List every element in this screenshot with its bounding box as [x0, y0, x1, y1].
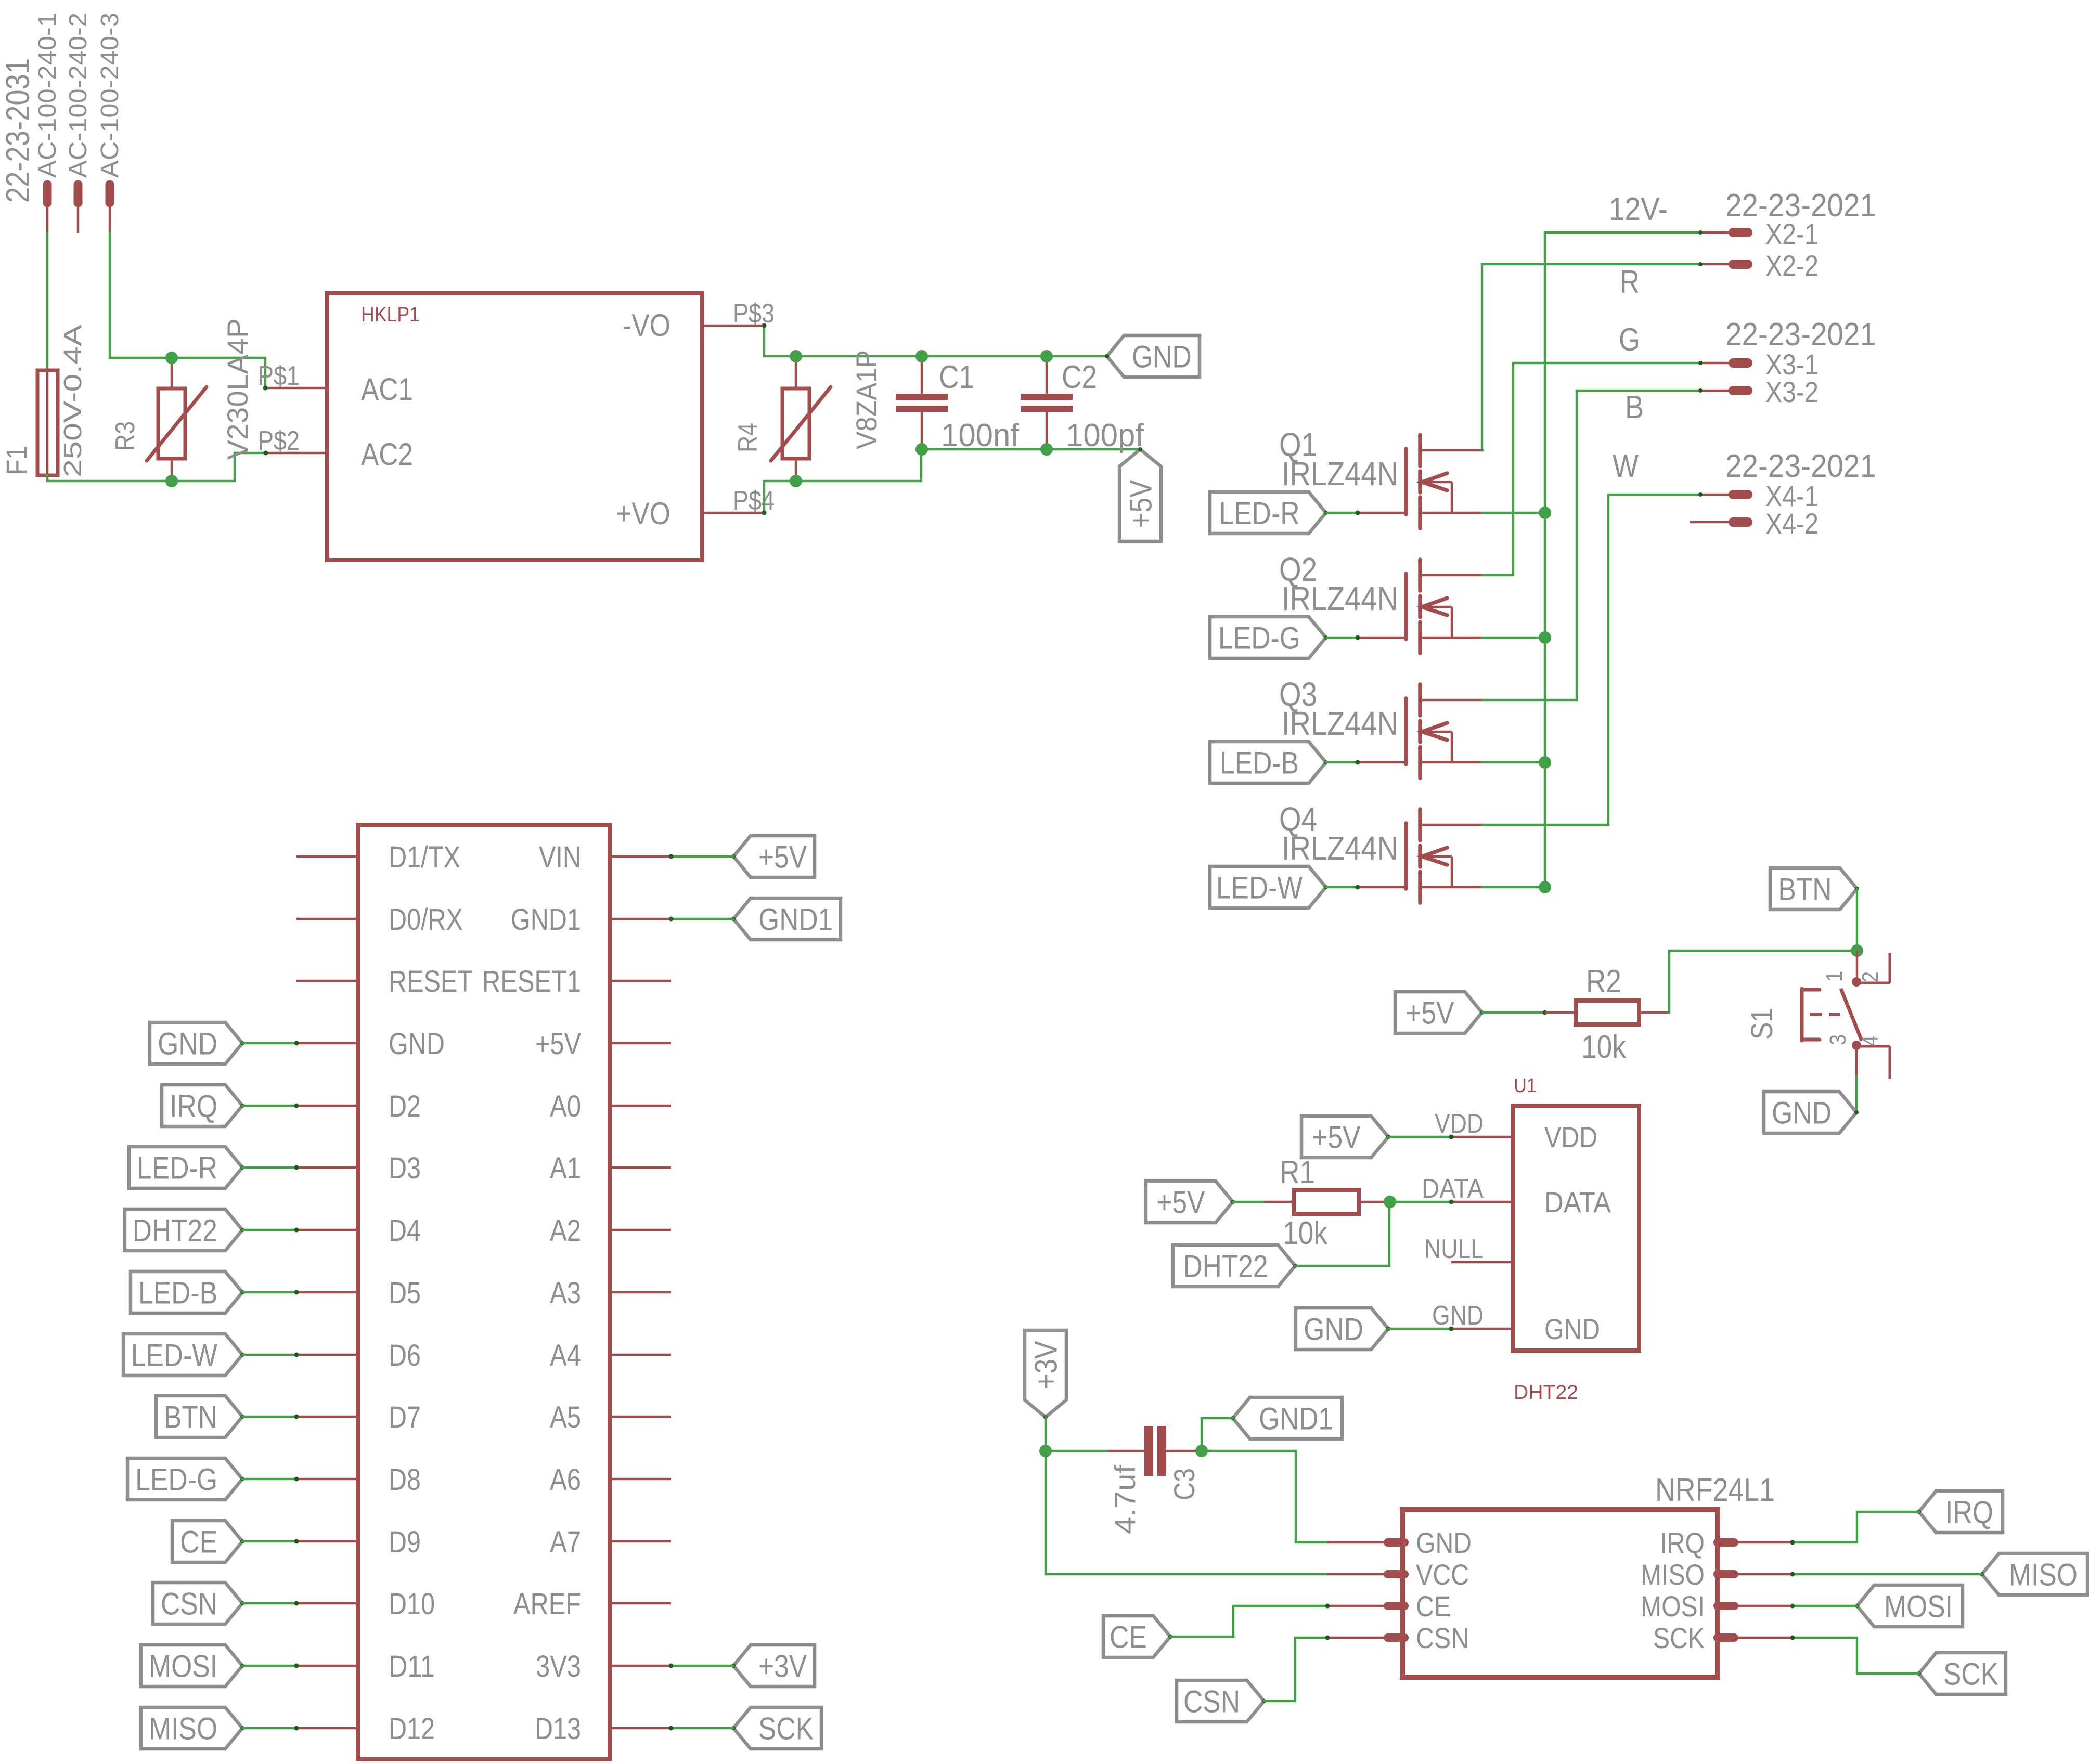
svg-text:3V3: 3V3 — [536, 1650, 581, 1683]
svg-text:AC-100-240-1: AC-100-240-1 — [34, 12, 61, 178]
net flag IRQ at D2 — [162, 1085, 242, 1126]
net flag GND at GND — [150, 1022, 242, 1064]
wire X1-1 to F1 — [46, 233, 49, 370]
svg-text:DATA: DATA — [1544, 1186, 1611, 1218]
S1 pin 2 bracket — [1889, 953, 1891, 983]
wire +5V to R2 — [1482, 1011, 1545, 1014]
svg-text:P$2: P$2 — [258, 426, 300, 456]
svg-text:GND: GND — [1432, 1301, 1484, 1331]
module NRF24L1 box — [1402, 1510, 1718, 1677]
wire Q3 source to bus — [1482, 761, 1545, 764]
svg-text:250V-0.4A: 250V-0.4A — [59, 325, 87, 477]
supply flag +5V at R1 — [1146, 1181, 1233, 1223]
pin NRF VCC — [1327, 1573, 1386, 1576]
pin A5 — [610, 1416, 671, 1418]
wire MOSI — [1793, 1605, 1857, 1607]
pin D0/RX — [296, 918, 358, 920]
node R4 bottom — [790, 475, 802, 487]
svg-text:BTN: BTN — [164, 1399, 217, 1434]
svg-text:R: R — [1620, 264, 1640, 300]
pin NRF IRQ — [1736, 1541, 1793, 1544]
pin P$2 AC2 — [266, 452, 327, 455]
connector pin X2-1 — [1700, 231, 1729, 234]
net flag GND below S1 — [1764, 1092, 1856, 1133]
net flag CE at D9 — [172, 1521, 242, 1562]
node C1 bottom — [915, 443, 928, 456]
svg-text:IRLZ44N: IRLZ44N — [1282, 705, 1398, 742]
svg-text:IRLZ44N: IRLZ44N — [1282, 455, 1398, 492]
svg-text:A3: A3 — [550, 1276, 581, 1310]
svg-text:+5V: +5V — [1157, 1185, 1205, 1220]
svg-text:LED-W: LED-W — [131, 1338, 217, 1372]
svg-text:LED-B: LED-B — [1220, 745, 1299, 780]
pin D12 — [296, 1727, 358, 1730]
pin +5V — [610, 1042, 671, 1045]
svg-text:R2: R2 — [1586, 964, 1621, 1000]
svg-text:LED-G: LED-G — [1218, 620, 1300, 655]
supply flag +5V — [1119, 449, 1161, 541]
connector X1 pin AC-100-240-2 — [74, 185, 83, 203]
svg-text:MISO: MISO — [2009, 1557, 2078, 1592]
pin 3V3 — [610, 1665, 671, 1667]
net flag LED gate Q4 — [1210, 866, 1326, 908]
svg-text:1: 1 — [1822, 971, 1847, 982]
wire net 12V- to X2-1 — [1545, 231, 1700, 234]
wire R1 to DATA — [1390, 1201, 1451, 1203]
svg-text:IRQ: IRQ — [1660, 1526, 1705, 1559]
svg-text:GND1: GND1 — [511, 903, 581, 937]
net flag SCK — [1919, 1653, 2006, 1694]
wire C3 to NRF GND — [1202, 1451, 1327, 1542]
wire SCK — [1793, 1638, 1919, 1674]
svg-text:CE: CE — [180, 1524, 217, 1559]
svg-text:D5: D5 — [389, 1276, 421, 1310]
node R3 top — [165, 352, 178, 364]
pin P$1 AC1 — [265, 387, 327, 390]
net flag LED gate Q3 — [1210, 742, 1326, 783]
pin D10 — [296, 1602, 358, 1605]
net flag MISO at D12 — [141, 1707, 242, 1749]
svg-text:+5V: +5V — [1123, 480, 1158, 528]
pin A6 — [610, 1478, 671, 1481]
net flag GND1 at C3 — [1233, 1397, 1342, 1439]
net flag MISO — [1982, 1553, 2087, 1595]
wire Q4 source to bus — [1482, 886, 1545, 889]
S1 pin 4 bracket — [1889, 1046, 1891, 1079]
svg-text:VDD: VDD — [1544, 1121, 1597, 1153]
supply flag GND — [1107, 335, 1200, 377]
svg-text:GND1: GND1 — [758, 902, 833, 937]
switch S1 — [1856, 951, 1859, 981]
pin D13 — [610, 1727, 671, 1730]
wire Q2 source to bus — [1482, 637, 1545, 639]
svg-text:X3-2: X3-2 — [1765, 375, 1819, 408]
net flag GND at U1 — [1296, 1308, 1388, 1350]
transistor Q1 IRLZ44N — [1404, 449, 1408, 514]
wire +3V to NRF VCC — [1046, 1451, 1327, 1574]
wire 12V- bus — [1544, 232, 1546, 887]
wire BTN down — [1856, 889, 1859, 951]
capacitor C2 — [1046, 356, 1048, 394]
svg-text:U1: U1 — [1514, 1075, 1537, 1097]
pin D1/TX — [296, 855, 358, 858]
fuse F1 — [37, 370, 58, 475]
svg-text:B: B — [1625, 390, 1644, 425]
wire -VO to GND rail — [764, 326, 1107, 356]
wire Q1 source to bus — [1482, 512, 1545, 514]
power module HKLP1 — [327, 293, 702, 560]
pin P$4 +VO — [702, 512, 764, 514]
svg-text:CSN: CSN — [1416, 1622, 1469, 1654]
svg-text:D0/RX: D0/RX — [389, 903, 463, 937]
node C3 right — [1195, 1445, 1208, 1457]
svg-text:NRF24L1: NRF24L1 — [1655, 1472, 1775, 1508]
pin GND1 — [610, 918, 671, 920]
svg-text:D12: D12 — [389, 1712, 435, 1746]
svg-text:MISO: MISO — [149, 1711, 217, 1746]
net flag MOSI at D11 — [141, 1645, 242, 1687]
svg-text:D8: D8 — [389, 1463, 421, 1497]
svg-text:10k: 10k — [1581, 1029, 1627, 1065]
microcontroller IC1 box — [358, 825, 610, 1759]
pin NRF CE — [1327, 1605, 1386, 1607]
connector pin X3-1 — [1700, 362, 1729, 365]
svg-text:DHT22: DHT22 — [1514, 1382, 1578, 1404]
wire DHT22 to DATA — [1295, 1202, 1389, 1266]
svg-text:CSN: CSN — [1183, 1684, 1240, 1719]
svg-text:D3: D3 — [389, 1151, 421, 1185]
wire CSN — [1264, 1638, 1327, 1701]
net flag MOSI — [1857, 1585, 1963, 1627]
svg-text:IRQ: IRQ — [1945, 1495, 1993, 1529]
pin U1 DATA — [1451, 1201, 1513, 1203]
svg-text:10k: 10k — [1283, 1215, 1328, 1251]
svg-text:4: 4 — [1858, 1035, 1883, 1046]
pin D8 — [296, 1478, 358, 1481]
svg-text:GND: GND — [1544, 1313, 1600, 1345]
pin NRF SCK — [1736, 1637, 1793, 1639]
pin NRF CSN — [1327, 1637, 1386, 1639]
supply flag +5V at R2 — [1395, 992, 1482, 1033]
svg-text:D4: D4 — [389, 1214, 421, 1248]
svg-text:D7: D7 — [389, 1400, 421, 1434]
svg-text:IRQ: IRQ — [170, 1088, 217, 1123]
svg-text:C1: C1 — [939, 359, 974, 395]
pin U1 NULL — [1451, 1261, 1513, 1264]
wire CE — [1170, 1606, 1327, 1637]
connector X1 pin AC-100-240-1 — [43, 185, 52, 203]
svg-text:CE: CE — [1110, 1619, 1147, 1654]
supply flag +5V at VDD — [1301, 1116, 1388, 1158]
svg-text:A2: A2 — [550, 1214, 581, 1248]
svg-text:GND: GND — [389, 1027, 445, 1061]
svg-text:IRLZ44N: IRLZ44N — [1282, 829, 1398, 867]
svg-text:P$1: P$1 — [258, 361, 300, 391]
pin VIN — [610, 855, 671, 858]
svg-text:D2: D2 — [389, 1089, 421, 1123]
svg-text:F1: F1 — [0, 446, 33, 475]
wire F1 bottom rail — [47, 453, 266, 481]
net flag +5V at VIN — [733, 836, 815, 877]
pin A2 — [610, 1229, 671, 1231]
pin D2 — [296, 1105, 358, 1107]
connector pin X2-2 — [1700, 263, 1729, 266]
svg-text:RESET1: RESET1 — [482, 965, 581, 998]
svg-text:+5V: +5V — [535, 1027, 581, 1061]
svg-text:MOSI: MOSI — [149, 1649, 217, 1683]
wire GND to U1 — [1388, 1328, 1451, 1330]
net flag IRQ — [1919, 1491, 2003, 1533]
net flag LED-W at D6 — [123, 1334, 242, 1376]
wire net B — [1482, 391, 1700, 700]
svg-text:3: 3 — [1825, 1034, 1851, 1045]
connector X1 pin AC-100-240-3 — [106, 185, 114, 203]
transistor Q2 IRLZ44N — [1404, 574, 1408, 639]
svg-text:RESET: RESET — [389, 965, 473, 998]
pin D7 — [296, 1416, 358, 1418]
svg-text:P$3: P$3 — [733, 299, 775, 329]
svg-text:X2-1: X2-1 — [1765, 217, 1819, 250]
pin U1 GND — [1451, 1328, 1513, 1330]
node C2 top — [1040, 350, 1053, 362]
node BTN junction — [1851, 944, 1863, 957]
svg-text:VDD: VDD — [1435, 1109, 1484, 1139]
svg-text:D10: D10 — [389, 1587, 435, 1621]
pin D6 — [296, 1354, 358, 1356]
pin P$3 -VO — [702, 325, 764, 327]
svg-text:DHT22: DHT22 — [133, 1213, 217, 1248]
node R3 bottom — [165, 475, 178, 487]
node C1 top — [915, 350, 928, 362]
wire +5V to VDD — [1388, 1136, 1451, 1138]
svg-text:+5V: +5V — [758, 839, 807, 874]
svg-text:LED-G: LED-G — [135, 1462, 217, 1497]
svg-text:100pf: 100pf — [1066, 418, 1144, 453]
net flag LED gate Q1 — [1210, 492, 1326, 534]
capacitor C3 — [1046, 1450, 1108, 1452]
net flag LED-B at D5 — [131, 1272, 242, 1313]
wire X1-3 down — [110, 233, 265, 388]
net flag CSN — [1177, 1680, 1264, 1722]
svg-text:R3: R3 — [110, 421, 140, 451]
svg-text:D6: D6 — [389, 1339, 421, 1372]
svg-text:AC1: AC1 — [361, 372, 413, 407]
pin D4 — [296, 1229, 358, 1231]
svg-text:AC2: AC2 — [361, 437, 413, 472]
svg-text:+VO: +VO — [616, 496, 670, 531]
svg-text:LED-R: LED-R — [1219, 496, 1300, 530]
node R4 top — [790, 350, 802, 362]
svg-text:SCK: SCK — [1943, 1656, 1998, 1691]
svg-text:CSN: CSN — [161, 1586, 217, 1621]
svg-text:IRLZ44N: IRLZ44N — [1282, 580, 1398, 617]
svg-text:GND: GND — [158, 1026, 217, 1061]
svg-text:GND: GND — [1132, 339, 1192, 374]
wire R2 to S1 — [1669, 951, 1857, 1013]
net flag CE — [1103, 1616, 1170, 1657]
varistor R4 — [795, 356, 797, 388]
net flag LED gate Q2 — [1210, 617, 1326, 658]
svg-text:LED-R: LED-R — [137, 1150, 217, 1185]
pin D9 — [296, 1540, 358, 1543]
node 12V- Q1 — [1539, 507, 1551, 519]
svg-text:NULL: NULL — [1424, 1234, 1484, 1264]
svg-text:A6: A6 — [550, 1463, 581, 1497]
pin RESET1 — [610, 980, 671, 982]
svg-text:DHT22: DHT22 — [1183, 1249, 1268, 1283]
net flag +3V at 3V3 — [733, 1645, 815, 1687]
wire net W — [1482, 495, 1700, 825]
supply flag +3V — [1025, 1330, 1066, 1417]
svg-text:MISO: MISO — [1641, 1558, 1705, 1591]
pin D5 — [296, 1291, 358, 1294]
svg-text:D9: D9 — [389, 1525, 421, 1559]
net flag SCK at D13 — [733, 1707, 821, 1749]
svg-text:4.7uf: 4.7uf — [1108, 1465, 1141, 1534]
pin A1 — [610, 1166, 671, 1169]
svg-text:AREF: AREF — [513, 1587, 581, 1621]
net flag LED-R at D3 — [129, 1147, 242, 1188]
svg-text:A5: A5 — [550, 1400, 581, 1434]
svg-text:+3V: +3V — [1028, 1341, 1063, 1390]
svg-text:LED-W: LED-W — [1216, 870, 1303, 905]
svg-text:CE: CE — [1416, 1590, 1451, 1623]
node 12V- Q3 — [1539, 756, 1551, 769]
wire C3 to GND1 — [1202, 1418, 1233, 1451]
pin NRF GND — [1327, 1541, 1386, 1544]
svg-text:W: W — [1613, 448, 1639, 484]
svg-text:HKLP1: HKLP1 — [361, 303, 420, 326]
pin D11 — [296, 1665, 358, 1667]
svg-text:22-23-2021: 22-23-2021 — [1725, 448, 1876, 484]
svg-text:P$4: P$4 — [733, 486, 775, 516]
node DATA junction — [1384, 1196, 1396, 1208]
transistor Q3 IRLZ44N — [1404, 698, 1408, 764]
node 12V- Q2 — [1539, 631, 1551, 644]
svg-text:MOSI: MOSI — [1884, 1589, 1953, 1624]
svg-text:+5V: +5V — [1312, 1120, 1361, 1155]
svg-text:A0: A0 — [550, 1089, 581, 1123]
svg-text:D1/TX: D1/TX — [389, 840, 460, 874]
svg-text:AC-100-240-2: AC-100-240-2 — [65, 12, 92, 178]
svg-text:R4: R4 — [733, 423, 763, 452]
pin A7 — [610, 1540, 671, 1543]
svg-text:22-23-2021: 22-23-2021 — [1725, 317, 1876, 353]
net flag GND1 at GND1 — [733, 898, 841, 940]
wire net G — [1482, 363, 1700, 575]
svg-text:V230LA4P: V230LA4P — [221, 318, 254, 460]
svg-text:A7: A7 — [550, 1525, 581, 1559]
svg-text:X2-2: X2-2 — [1765, 249, 1819, 282]
svg-text:12V-: 12V- — [1609, 191, 1668, 227]
varistor R3 — [171, 358, 173, 388]
svg-text:A4: A4 — [550, 1339, 581, 1372]
net flag BTN — [1770, 868, 1857, 910]
svg-text:GND1: GND1 — [1259, 1401, 1333, 1436]
svg-text:C2: C2 — [1062, 359, 1097, 395]
resistor R2 — [1545, 1011, 1576, 1014]
svg-text:A1: A1 — [550, 1151, 581, 1185]
pin NRF MISO — [1736, 1573, 1793, 1576]
net flag DHT22 at D4 — [125, 1209, 242, 1251]
node +3V junction — [1039, 1445, 1052, 1457]
node 12V- Q4 — [1539, 881, 1551, 893]
wire S1 to GND — [1855, 1076, 1858, 1112]
sensor U1 DHT22 box — [1513, 1106, 1639, 1351]
pin GND — [296, 1042, 358, 1045]
net flag CSN at D10 — [153, 1583, 242, 1624]
svg-text:VCC: VCC — [1416, 1558, 1469, 1591]
pin A4 — [610, 1354, 671, 1356]
net flag BTN at D7 — [156, 1396, 242, 1437]
svg-text:MOSI: MOSI — [1641, 1590, 1705, 1623]
svg-text:AC-100-240-3: AC-100-240-3 — [96, 12, 124, 178]
pin RESET — [296, 980, 358, 982]
svg-text:V8ZA1P: V8ZA1P — [850, 350, 883, 449]
svg-text:22-23-2031: 22-23-2031 — [0, 58, 36, 203]
svg-text:D13: D13 — [535, 1712, 581, 1746]
transistor Q4 IRLZ44N — [1404, 823, 1408, 889]
pin D3 — [296, 1166, 358, 1169]
wire +5V to R1 — [1233, 1201, 1264, 1203]
svg-text:D11: D11 — [389, 1650, 435, 1683]
svg-text:R1: R1 — [1280, 1155, 1315, 1190]
pin NRF MOSI — [1736, 1605, 1793, 1607]
connector pin X4-1 — [1700, 494, 1729, 496]
wire +3V down — [1044, 1417, 1047, 1451]
svg-text:-VO: -VO — [623, 308, 670, 343]
svg-text:LED-B: LED-B — [138, 1275, 217, 1310]
svg-text:SCK: SCK — [1653, 1622, 1705, 1654]
svg-text:DATA: DATA — [1422, 1174, 1484, 1204]
svg-text:GND: GND — [1304, 1312, 1363, 1346]
wire +VO to +5V rail — [764, 449, 1140, 513]
pin U1 VDD — [1451, 1136, 1513, 1138]
svg-text:GND: GND — [1416, 1526, 1472, 1559]
svg-text:100nf: 100nf — [941, 418, 1020, 453]
svg-text:+3V: +3V — [758, 1649, 807, 1683]
svg-text:G: G — [1619, 322, 1640, 358]
pin AREF — [610, 1602, 671, 1605]
wire IRQ — [1793, 1512, 1919, 1542]
net flag LED-G at D8 — [127, 1458, 242, 1500]
connector pin X3-2 — [1700, 390, 1729, 392]
wire net R — [1482, 264, 1700, 450]
svg-text:BTN: BTN — [1778, 872, 1832, 906]
pin A0 — [610, 1105, 671, 1107]
net flag DHT22 — [1173, 1245, 1295, 1287]
resistor R1 — [1264, 1201, 1294, 1203]
svg-text:+5V: +5V — [1406, 995, 1454, 1030]
svg-text:C3: C3 — [1168, 1468, 1201, 1500]
svg-text:SCK: SCK — [758, 1711, 814, 1746]
svg-text:GND: GND — [1772, 1095, 1832, 1130]
svg-text:X4-2: X4-2 — [1765, 507, 1819, 540]
svg-text:VIN: VIN — [539, 840, 581, 874]
connector pin X4-2 — [1690, 521, 1729, 524]
svg-text:S1: S1 — [1745, 1008, 1779, 1040]
node C2 bottom — [1040, 443, 1053, 456]
wire MISO — [1793, 1573, 1982, 1576]
svg-text:2: 2 — [1858, 971, 1883, 982]
pin A3 — [610, 1291, 671, 1294]
capacitor C1 — [921, 356, 923, 394]
